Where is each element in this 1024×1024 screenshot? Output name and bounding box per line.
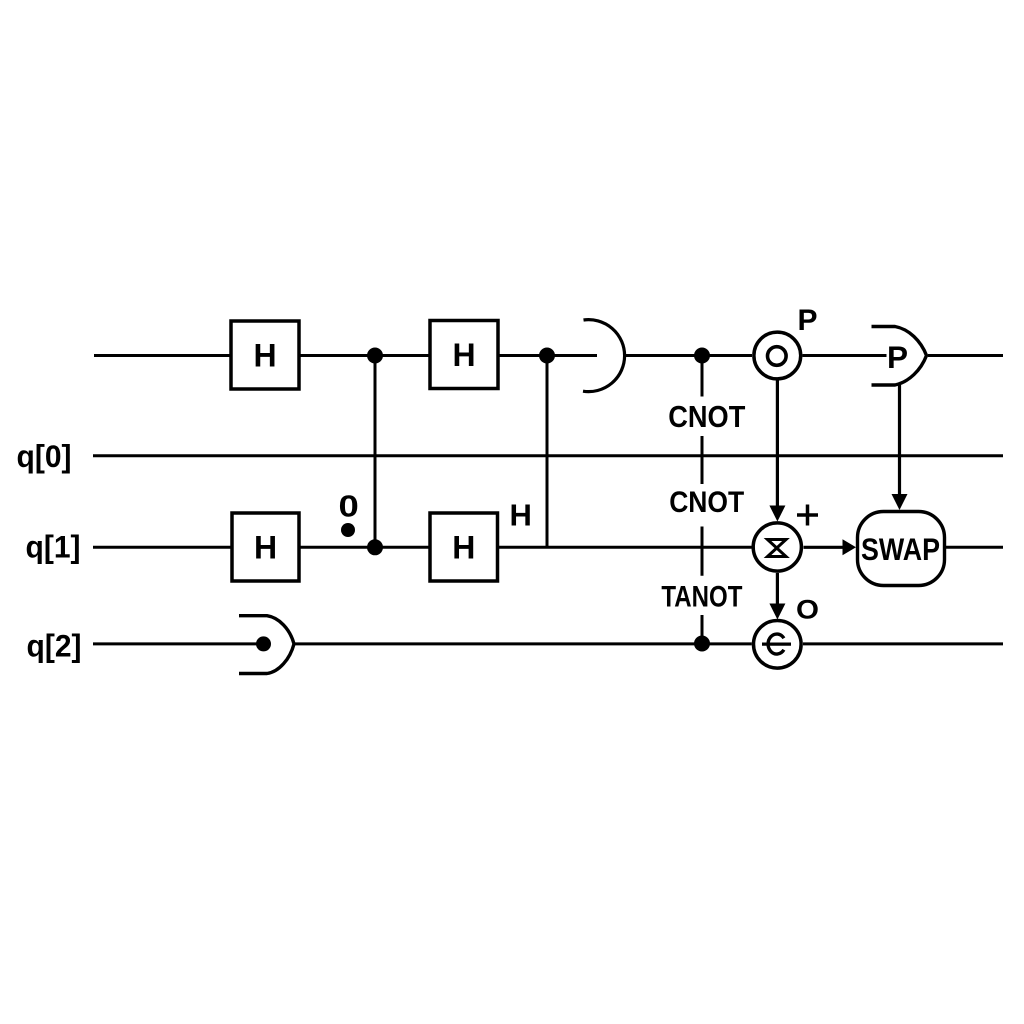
svg-text:H: H <box>253 338 276 374</box>
arrow from O-circle down to X-circle <box>769 381 785 522</box>
wire q[0] line <box>93 454 1003 457</box>
svg-text:H: H <box>452 530 475 566</box>
dashed control line with endpoint dots <box>701 356 704 641</box>
gate P-arc on top wire <box>872 327 927 386</box>
svg-text:CNOT: CNOT <box>668 399 745 434</box>
gate e-circle on q[2] <box>754 621 802 669</box>
svg-text:P: P <box>887 339 908 375</box>
svg-text:SWAP: SWAP <box>861 531 940 567</box>
svg-text:q[1]: q[1] <box>26 529 81 565</box>
control link CZ2 (top wire to q[1]) <box>539 348 555 548</box>
wire q[2] line <box>93 642 1003 645</box>
junction dot top of dashed line <box>694 348 710 364</box>
arrow from X-circle down to e-circle <box>769 573 785 620</box>
gate OR-tail on q[2] with control dot <box>239 616 294 674</box>
svg-text:H: H <box>452 337 475 373</box>
svg-text:H: H <box>510 497 532 532</box>
gate SWAP node <box>858 512 945 586</box>
gate H3 (q[1] wire, first) <box>232 513 299 581</box>
gate H2 (top wire, second) <box>430 321 498 389</box>
svg-text:q[2]: q[2] <box>27 628 82 664</box>
label + beside X-circle <box>797 505 818 526</box>
svg-text:O: O <box>796 595 819 625</box>
svg-text:0: 0 <box>339 490 359 524</box>
gate X-circle (hourglass) on q[1] <box>753 523 801 571</box>
gate O-circle on top wire <box>754 332 801 379</box>
wire q[1] line <box>93 546 1003 549</box>
gate H4 (q[1] wire, second) <box>430 513 498 581</box>
svg-text:q[0]: q[0] <box>17 438 72 474</box>
svg-text:CNOT: CNOT <box>669 486 744 519</box>
arrow from P-arc down to SWAP <box>892 385 908 510</box>
arrow from X-circle right to SWAP <box>804 539 857 555</box>
gate H1 (top wire, first) <box>231 321 299 389</box>
svg-text:TANOT: TANOT <box>661 581 742 614</box>
stray control dot below 0 label <box>341 523 355 537</box>
control link CZ1 (top wire to q[1]) <box>367 348 383 556</box>
junction dot bottom of dashed line <box>694 636 710 652</box>
crescent arc gate on top wire <box>583 320 625 392</box>
wire top qubit line <box>94 354 1003 357</box>
svg-text:H: H <box>254 530 277 566</box>
svg-text:P: P <box>798 304 818 337</box>
